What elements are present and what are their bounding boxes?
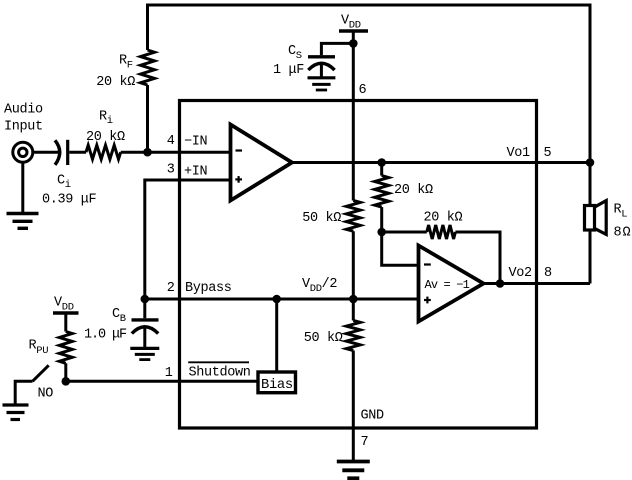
label Shutdown overline bbox=[188, 361, 249, 363]
node bypass left bbox=[141, 295, 150, 304]
speaker RL body bbox=[585, 206, 595, 231]
wire jack to ground bbox=[21, 164, 24, 214]
resistor 50k lower bbox=[346, 321, 360, 351]
node feedback junction bbox=[377, 228, 386, 237]
capacitor CB bbox=[143, 299, 146, 318]
svg-text:4: 4 bbox=[167, 134, 175, 149]
U1A minus input sign bbox=[236, 149, 243, 151]
block Bias bbox=[258, 372, 296, 393]
wire 50k upper to VDD/2 node bbox=[352, 231, 355, 299]
svg-text:5: 5 bbox=[544, 146, 552, 161]
wire top feedback rail bbox=[148, 5, 591, 163]
power VDD bar pullup bbox=[53, 311, 79, 314]
svg-text:1: 1 bbox=[165, 366, 173, 381]
ground pin 7 bbox=[337, 460, 370, 464]
ground CS bbox=[308, 76, 336, 79]
svg-text:Ci: Ci bbox=[57, 174, 71, 192]
svg-text:NO: NO bbox=[38, 387, 54, 402]
wire Vo2 output bbox=[484, 282, 591, 285]
svg-text:RF: RF bbox=[119, 54, 133, 72]
resistor RPU bbox=[59, 332, 72, 364]
wire shutdown pin 1 bbox=[66, 380, 258, 383]
wire RPU to node bbox=[64, 363, 67, 381]
svg-text:VDD: VDD bbox=[341, 14, 361, 32]
svg-text:Bypass: Bypass bbox=[185, 281, 232, 296]
speaker RL horn bbox=[595, 201, 606, 235]
svg-text:Vo1: Vo1 bbox=[507, 146, 531, 161]
svg-text:1 μF: 1 μF bbox=[273, 63, 304, 78]
svg-text:Av = −1: Av = −1 bbox=[425, 278, 470, 292]
capacitor Ci bbox=[55, 140, 60, 165]
wire speaker to Vo2 row bbox=[589, 231, 592, 284]
svg-text:50 kΩ: 50 kΩ bbox=[302, 211, 341, 226]
wire CS tap bbox=[321, 43, 353, 55]
resistor 20k vertical bbox=[375, 176, 389, 208]
IC boundary box U1 bbox=[180, 101, 537, 429]
node Vo2 bbox=[496, 279, 505, 288]
svg-text:1.0 μF: 1.0 μF bbox=[84, 328, 127, 343]
node Vo1 at 20k tap bbox=[377, 158, 386, 167]
resistor 20k feedback bbox=[427, 225, 456, 239]
U1A plus input sign bbox=[235, 178, 242, 180]
node shutdown bbox=[62, 377, 71, 386]
svg-text:3: 3 bbox=[167, 163, 175, 178]
svg-text:+IN: +IN bbox=[184, 165, 208, 180]
wire VDD down pin 6 bbox=[352, 31, 355, 201]
svg-text:2: 2 bbox=[167, 281, 175, 296]
svg-text:CB: CB bbox=[112, 307, 126, 325]
svg-text:VDD/2: VDD/2 bbox=[302, 277, 337, 295]
wire Ci to Ri bbox=[69, 151, 86, 154]
svg-text:RL: RL bbox=[614, 203, 628, 221]
svg-text:Bias: Bias bbox=[261, 377, 293, 393]
svg-text:Shutdown: Shutdown bbox=[189, 366, 251, 381]
svg-text:GND: GND bbox=[361, 409, 385, 424]
wire 50k lower to GND pin 7 bbox=[352, 351, 355, 462]
svg-text:20 kΩ: 20 kΩ bbox=[96, 75, 135, 90]
svg-text:Ri: Ri bbox=[99, 110, 113, 128]
svg-text:20 kΩ: 20 kΩ bbox=[394, 183, 433, 198]
ground switch bbox=[3, 403, 29, 406]
ground input bbox=[7, 212, 39, 215]
svg-text:0.39 μF: 0.39 μF bbox=[42, 193, 97, 208]
resistor Ri bbox=[86, 145, 121, 159]
svg-text:Input: Input bbox=[4, 120, 43, 135]
wire +IN pin 3 bbox=[145, 180, 231, 299]
svg-text:CS: CS bbox=[288, 44, 302, 62]
U1B plus sign bbox=[424, 299, 431, 301]
wire bypass row pin 2 bbox=[145, 298, 419, 301]
switch S1 arm bbox=[33, 365, 49, 381]
node VDD / CS tap bbox=[349, 39, 358, 48]
node VDD/2 bbox=[349, 295, 358, 304]
op-amp U1A bbox=[231, 125, 293, 201]
wire RF bottom to -IN node bbox=[146, 85, 149, 152]
svg-text:Audio: Audio bbox=[4, 103, 43, 118]
wire VDD/2 to 50k lower bbox=[352, 299, 355, 321]
connector J1 audio input jack bbox=[13, 142, 33, 162]
svg-text:VDD: VDD bbox=[54, 296, 74, 314]
wire Ri to -IN pin 4 bbox=[121, 151, 231, 154]
switch fixed contact wire bbox=[15, 381, 32, 405]
capacitor CS bbox=[308, 55, 335, 58]
power VDD bar bbox=[339, 29, 368, 33]
svg-text:8: 8 bbox=[614, 226, 622, 241]
wire jack to Ci bbox=[34, 151, 59, 154]
wire feedback right to Vo2 bbox=[455, 232, 500, 284]
wire feedback left bbox=[382, 231, 427, 234]
svg-text:−IN: −IN bbox=[184, 135, 208, 150]
wire Vo1 output row bbox=[292, 161, 590, 164]
svg-text:RPU: RPU bbox=[29, 339, 49, 358]
node -IN junction bbox=[143, 148, 152, 157]
svg-text:Ω: Ω bbox=[623, 226, 631, 241]
svg-text:20 kΩ: 20 kΩ bbox=[424, 211, 463, 226]
wire bias box to bypass bbox=[275, 299, 278, 371]
svg-text:6: 6 bbox=[359, 83, 367, 98]
resistor 50k upper bbox=[346, 201, 360, 232]
wire -IN2 from feedback node bbox=[382, 232, 419, 265]
node Vo1 at right rail bbox=[586, 158, 595, 167]
wire VDD bar to RPU bbox=[64, 313, 67, 332]
node bias tap bbox=[272, 295, 281, 304]
ground CB bbox=[130, 347, 159, 350]
svg-text:Vo2: Vo2 bbox=[509, 266, 533, 281]
op-amp U1B bbox=[419, 246, 484, 322]
svg-text:8: 8 bbox=[544, 266, 552, 281]
wire right rail to speaker bbox=[589, 163, 592, 205]
resistor RF bbox=[141, 50, 155, 85]
svg-text:50 kΩ: 50 kΩ bbox=[304, 331, 343, 346]
svg-text:7: 7 bbox=[361, 435, 369, 450]
U1B minus sign bbox=[424, 263, 431, 265]
wire 20k vertical stubs bbox=[380, 163, 383, 176]
